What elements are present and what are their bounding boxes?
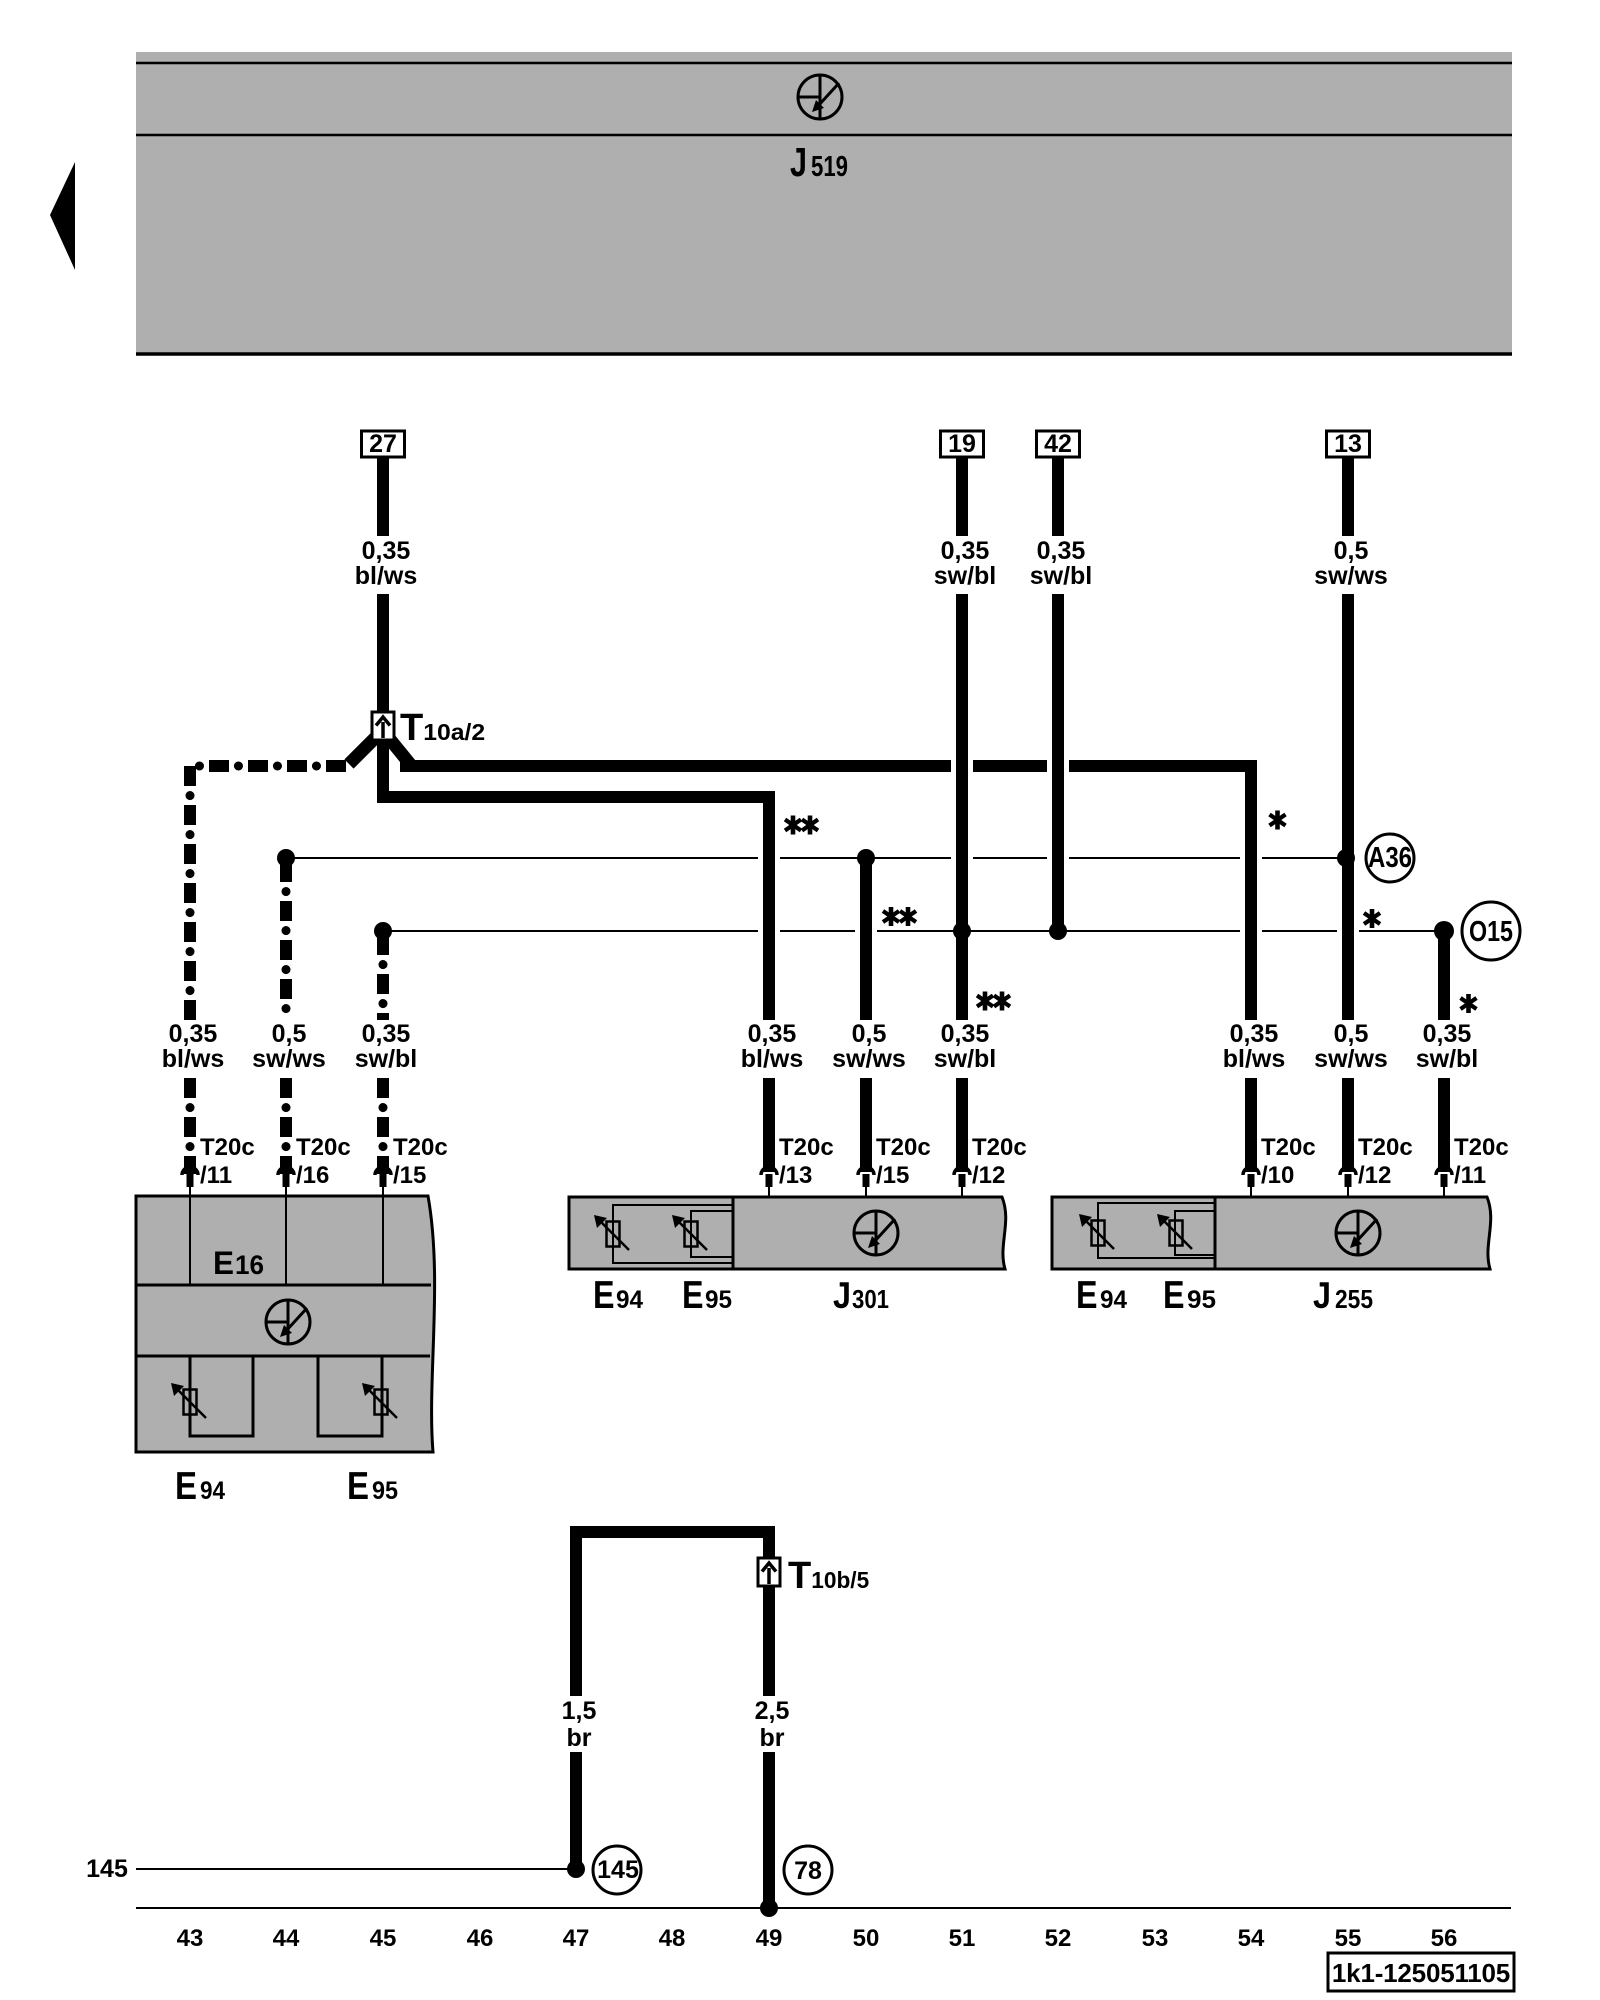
svg-text:19: 19 (948, 430, 976, 458)
svg-text:0,35: 0,35 (1037, 537, 1086, 565)
svg-text:bl/ws: bl/ws (355, 562, 418, 590)
lamp symbol in E16 (266, 1300, 310, 1344)
terminal box 13 (1327, 430, 1370, 458)
dashed wire node O15 to E16 pin T20c/15 (0,35 sw/bl) (377, 935, 389, 1174)
footnote mark * (O15 line) (1364, 909, 1380, 928)
pin label T20c/15 (876, 1134, 931, 1189)
connector pin T20c/16 (278, 1167, 294, 1202)
svg-text:sw/ws: sw/ws (832, 1045, 906, 1073)
junction dot E16 sw/bl wire (374, 922, 392, 940)
svg-text:E: E (175, 1465, 197, 1508)
internal wire pin 15 (382, 1196, 384, 1285)
footnote mark ** (sw/ws branch) (883, 907, 916, 926)
node circle O15 (1462, 902, 1520, 960)
svg-text:E: E (1076, 1274, 1098, 1317)
svg-text:52: 52 (1045, 1925, 1072, 1952)
value label 2,5 br (755, 1697, 790, 1752)
svg-text:T20c: T20c (200, 1134, 255, 1161)
svg-text:1,5: 1,5 (562, 1697, 597, 1725)
svg-text:94: 94 (200, 1477, 225, 1505)
junction arm right (388, 737, 410, 764)
svg-text:0,35: 0,35 (362, 1020, 411, 1048)
pin label T20c/11 (1454, 1134, 1509, 1189)
svg-text:T20c: T20c (779, 1134, 834, 1161)
svg-text:sw/ws: sw/ws (252, 1045, 326, 1073)
internal wire pin 11 (189, 1196, 191, 1285)
svg-text:94: 94 (1100, 1286, 1127, 1314)
svg-text:95: 95 (372, 1477, 398, 1505)
bus wire T10a/2 to J255 pin T20c/10 (400, 766, 1251, 1172)
svg-text:94: 94 (616, 1286, 643, 1314)
svg-text:48: 48 (659, 1925, 686, 1952)
pin label T20c/10 (1261, 1134, 1316, 1189)
junction dot O15 end (1434, 921, 1454, 941)
footnote mark * (bus corner) (1270, 811, 1286, 830)
wire 27 to T10a/2 (0,35 bl/ws) (377, 457, 389, 712)
svg-text:br: br (567, 1724, 592, 1752)
J519 bottom border (136, 352, 1512, 356)
svg-text:95: 95 (1187, 1286, 1216, 1314)
junction dot J301 sw/ws wire (857, 849, 875, 867)
svg-text:13: 13 (1334, 430, 1362, 458)
label E94 under J255 (1076, 1274, 1127, 1317)
svg-text:0,5: 0,5 (1334, 537, 1369, 565)
svg-text:/11: /11 (1454, 1162, 1486, 1189)
footnote mark ** (sw/bl branch) (977, 992, 1010, 1011)
wire 13 to J255 pin T20c/12 (0,5 sw/ws) (1342, 457, 1354, 1172)
terminal box 19 (941, 430, 984, 458)
svg-text:T10a/2: T10a/2 (400, 707, 485, 749)
svg-text:J: J (1313, 1275, 1331, 1316)
svg-text:0,35: 0,35 (169, 1020, 218, 1048)
ground symbol 145 (593, 1846, 641, 1894)
value label 1,5 br (562, 1697, 597, 1752)
svg-text:49: 49 (756, 1925, 783, 1952)
svg-text:0,35: 0,35 (1423, 1020, 1472, 1048)
node line O15 (383, 930, 1444, 932)
svg-text:br: br (760, 1724, 785, 1752)
rheostat E94 in E16 (171, 1383, 206, 1418)
footnote mark * (sw/bl J255) (1461, 994, 1477, 1013)
svg-text:53: 53 (1142, 1925, 1169, 1952)
svg-text:/13: /13 (779, 1162, 812, 1189)
svg-text:T20c: T20c (876, 1134, 931, 1161)
J519 upper rail line (136, 62, 1512, 65)
rheostat E95 in J301 (672, 1215, 707, 1250)
svg-text:16: 16 (235, 1250, 264, 1280)
svg-text:sw/bl: sw/bl (355, 1045, 418, 1073)
label J519 (790, 139, 848, 185)
svg-text:/12: /12 (972, 1162, 1005, 1189)
svg-text:50: 50 (853, 1925, 880, 1952)
svg-text:0,5: 0,5 (1334, 1020, 1369, 1048)
footnote mark ** (bl/ws branch) (785, 816, 818, 835)
svg-text:301: 301 (852, 1284, 889, 1314)
diagram number box 1k1-125051105 (1328, 1953, 1514, 1991)
pin label T20c/12 (1358, 1134, 1413, 1189)
lamp symbol in J301 (854, 1211, 898, 1255)
svg-text:44: 44 (273, 1925, 300, 1952)
bottom rail line (136, 1907, 1511, 1909)
label J301 (833, 1275, 889, 1316)
svg-text:J: J (833, 1275, 851, 1316)
pin label T20c/11 (200, 1134, 255, 1189)
wire end dot ground 78 (760, 1899, 778, 1917)
svg-text:27: 27 (369, 430, 397, 458)
svg-text:0,35: 0,35 (941, 537, 990, 565)
value label 0,35 sw/bl (1416, 1020, 1479, 1073)
svg-text:0,35: 0,35 (748, 1020, 797, 1048)
svg-text:O15: O15 (1469, 916, 1513, 948)
svg-text:43: 43 (177, 1925, 204, 1952)
svg-text:145: 145 (86, 1855, 128, 1883)
E94 frame in J255 (1098, 1203, 1215, 1258)
junction dot wire 42 end (1049, 922, 1067, 940)
internal wire pin 16 (285, 1196, 287, 1285)
svg-text:255: 255 (1335, 1284, 1373, 1314)
pin label T20c/16 (296, 1134, 351, 1189)
connector pin T20c/11 (1436, 1167, 1452, 1202)
svg-text:E: E (1163, 1274, 1185, 1317)
svg-text:/11: /11 (200, 1162, 232, 1189)
AC control unit J301 body (569, 1197, 1006, 1269)
svg-text:sw/bl: sw/bl (934, 562, 997, 590)
wire 19 to J301 pin T20c/12 (0,35 sw/bl) (956, 457, 968, 1172)
svg-text:/15: /15 (393, 1162, 426, 1189)
E16 divider 1 (136, 1284, 431, 1287)
rheostat E95 in E16 (362, 1383, 397, 1418)
svg-text:51: 51 (949, 1925, 976, 1952)
label E94 under J301 (593, 1274, 643, 1317)
svg-text:T20c: T20c (1358, 1134, 1413, 1161)
ground symbol 78 (784, 1846, 832, 1894)
Climatronic control unit J255 body (1052, 1197, 1491, 1269)
svg-text:bl/ws: bl/ws (1223, 1045, 1286, 1073)
junction dot on wire 13 (1337, 849, 1355, 867)
svg-text:45: 45 (370, 1925, 397, 1952)
svg-text:sw/bl: sw/bl (1030, 562, 1093, 590)
svg-text:sw/bl: sw/bl (934, 1045, 997, 1073)
J301 section divider (732, 1197, 735, 1269)
value label 0,5 sw/ws (1314, 1020, 1388, 1073)
terminal box 42 (1037, 430, 1080, 458)
E94 frame in J301 (613, 1205, 733, 1263)
wire T10a/2 down then right to J301 pin T20c/13 (383, 740, 769, 1172)
value label 0,35 sw/bl (934, 537, 997, 590)
value label 0,35 sw/bl (355, 1020, 418, 1073)
svg-text:1k1-125051105: 1k1-125051105 (1332, 1958, 1510, 1988)
ground wires 1,5 br and 2,5 br (576, 1532, 769, 1908)
pin label T20c/15 (393, 1134, 448, 1189)
wire 42 to node O15 (0,35 sw/bl) (1052, 457, 1064, 928)
J519 divider line (136, 134, 1512, 137)
svg-text:145: 145 (597, 1856, 639, 1884)
svg-text:sw/ws: sw/ws (1314, 562, 1388, 590)
svg-text:56: 56 (1431, 1925, 1458, 1952)
label E95 under J301 (682, 1274, 732, 1317)
label J255 (1313, 1275, 1373, 1316)
svg-text:T10b/5: T10b/5 (788, 1555, 869, 1597)
pin label T20c/13 (779, 1134, 834, 1189)
connector T10b/5 (758, 1558, 780, 1586)
connector pin T20c/12 (954, 1167, 970, 1202)
svg-text:bl/ws: bl/ws (162, 1045, 225, 1073)
value label 0,5 sw/ws (252, 1020, 326, 1073)
svg-text:/15: /15 (876, 1162, 909, 1189)
svg-text:A36: A36 (1368, 842, 1412, 874)
terminal box 27 (362, 430, 405, 458)
label E94 under E16 (175, 1465, 225, 1508)
node circle A36 (1366, 834, 1414, 882)
rheostat E94 in J301 (594, 1215, 629, 1250)
value label 0,35 bl/ws (741, 1020, 804, 1073)
svg-text:E: E (682, 1274, 704, 1317)
label E16 (213, 1245, 264, 1281)
lamp symbol in J519 (798, 75, 842, 119)
svg-text:95: 95 (705, 1286, 732, 1314)
E16 divider 2 (136, 1355, 430, 1358)
lamp symbol in J255 (1336, 1211, 1380, 1255)
label E95 under J255 (1163, 1274, 1216, 1317)
svg-text:sw/bl: sw/bl (1416, 1045, 1479, 1073)
label E95 under E16 (347, 1465, 398, 1508)
svg-text:78: 78 (794, 1857, 822, 1885)
connector pin T20c/12 (1340, 1167, 1356, 1202)
value label 0,35 bl/ws (1223, 1020, 1286, 1073)
svg-text:E: E (347, 1465, 369, 1508)
page margin arrow (50, 162, 75, 270)
dashed wire T10a/2 to E16 pin T20c/11 (0,35 bl/ws) (190, 766, 346, 1174)
svg-text:E: E (593, 1274, 615, 1317)
wire node A36 to J301 pin T20c/15 (0,5 sw/ws) (860, 862, 872, 1172)
svg-text:0,35: 0,35 (1230, 1020, 1279, 1048)
svg-text:0,35: 0,35 (362, 537, 411, 565)
svg-text:54: 54 (1238, 1925, 1265, 1952)
svg-text:T20c: T20c (1261, 1134, 1316, 1161)
E95 frame in J301 (691, 1211, 733, 1257)
junction dot E16 sw/ws wire (277, 849, 295, 867)
svg-text:J: J (790, 139, 807, 185)
connector pin T20c/11 (182, 1167, 198, 1202)
junction dot wire 19 (953, 922, 971, 940)
value label 0,5 sw/ws (1314, 537, 1388, 590)
svg-text:55: 55 (1335, 1925, 1362, 1952)
wire node O15 to J255 pin T20c/11 (0,35 sw/bl) (1438, 935, 1450, 1172)
node line A36 (286, 857, 1346, 859)
junction arm left (349, 737, 376, 764)
value label 0,35 sw/bl (1030, 537, 1093, 590)
svg-text:0,5: 0,5 (852, 1020, 887, 1048)
svg-text:/16: /16 (296, 1162, 329, 1189)
rheostat E94 in J255 (1079, 1214, 1114, 1249)
svg-text:0,5: 0,5 (272, 1020, 307, 1048)
connector pin T20c/10 (1243, 1167, 1259, 1202)
svg-text:bl/ws: bl/ws (741, 1045, 804, 1073)
dashed wire node A36 to E16 pin T20c/16 (0,5 sw/ws) (280, 862, 292, 1174)
svg-text:42: 42 (1044, 430, 1072, 458)
connector pin T20c/15 (858, 1167, 874, 1202)
dimmer E94 cell in E16 (190, 1356, 253, 1436)
rheostat E95 in J255 (1157, 1214, 1192, 1249)
svg-text:519: 519 (811, 151, 848, 183)
svg-text:0,35: 0,35 (941, 1020, 990, 1048)
connector pin T20c/13 (761, 1167, 777, 1202)
svg-text:T20c: T20c (1454, 1134, 1509, 1161)
value label 0,35 bl/ws (162, 1020, 225, 1073)
svg-text:T20c: T20c (972, 1134, 1027, 1161)
light switch E16 body (136, 1196, 435, 1452)
value label 0,35 bl/ws (355, 537, 418, 590)
ground rail 145 line (136, 1868, 576, 1870)
connector pin T20c/15 (375, 1167, 391, 1202)
svg-text:sw/ws: sw/ws (1314, 1045, 1388, 1073)
svg-text:47: 47 (563, 1925, 590, 1952)
svg-text:T20c: T20c (296, 1134, 351, 1161)
svg-text:/12: /12 (1358, 1162, 1391, 1189)
connector T10a/2 (372, 712, 394, 740)
svg-text:E: E (213, 1245, 234, 1281)
svg-text:46: 46 (467, 1925, 494, 1952)
svg-text:/10: /10 (1261, 1162, 1294, 1189)
svg-text:T20c: T20c (393, 1134, 448, 1161)
control unit J519 body (136, 52, 1512, 355)
J255 section divider (1214, 1197, 1217, 1269)
wire end dot ground 145 (567, 1860, 585, 1878)
svg-text:2,5: 2,5 (755, 1697, 790, 1725)
E95 frame in J255 (1175, 1211, 1215, 1255)
pin label T20c/12 (972, 1134, 1027, 1189)
dimmer E95 cell in E16 (318, 1356, 382, 1436)
value label 0,5 sw/ws (832, 1020, 906, 1073)
value label 0,35 sw/bl (934, 1020, 997, 1073)
